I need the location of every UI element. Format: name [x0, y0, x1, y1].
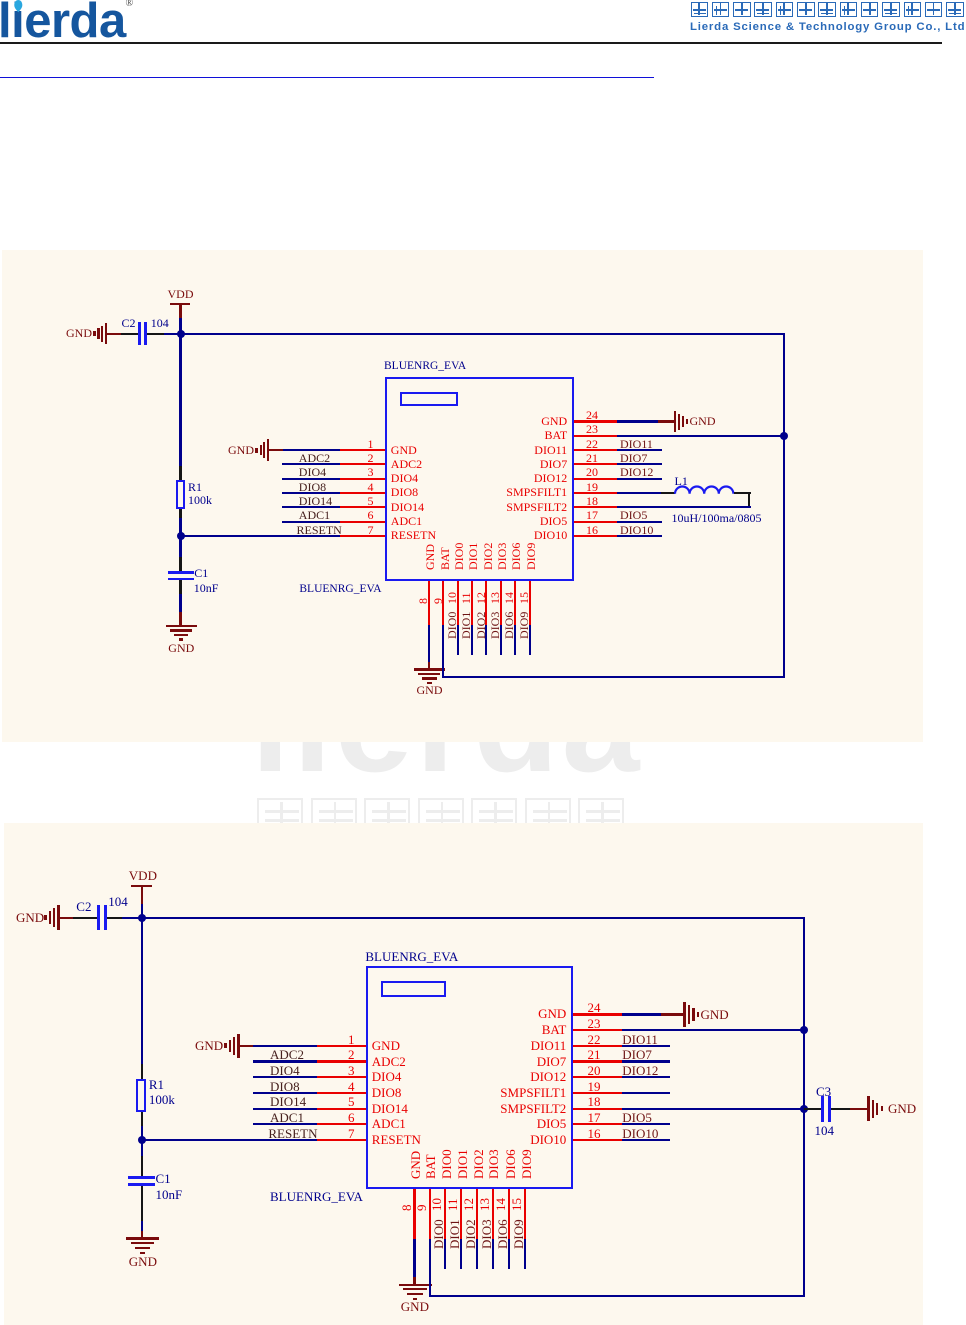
wire stub into ground (pin 8, sheet 2) [413, 1277, 415, 1284]
wire net DIO5 (sheet 2) [622, 1123, 670, 1125]
net label DIO1 [460, 611, 472, 638]
wire net DIO3 [500, 625, 502, 655]
pin number 4 (sheet 2) [321, 1080, 355, 1094]
inductor L1 [674, 484, 735, 495]
op-chip U1 BLUENRG_EVA body [385, 377, 573, 581]
net label DIO14 [299, 495, 332, 507]
pin 21 stub (sheet 2) [573, 1060, 622, 1062]
pin name ADC2 (pin 2, sheet 2) [372, 1055, 406, 1069]
wire bottom rail (sheet 2) [429, 1295, 806, 1297]
wire pin 24 to GND (sheet 2) [622, 1013, 662, 1015]
pin number 13 (sheet 2) [478, 1198, 491, 1211]
pin 23 stub [574, 435, 617, 437]
pin number 20 (sheet 2) [588, 1064, 601, 1078]
wire net DIO10 (sheet 2) [622, 1139, 670, 1141]
lead into L1 [661, 492, 676, 494]
pin name SMPSFILT2 (pin 18, sheet 2) [373, 1102, 567, 1116]
net label DIO11 [620, 438, 653, 450]
ground symbol (below chip, sheet 2) [399, 1284, 432, 1286]
lead out of C1 (sheet 2) [141, 1186, 143, 1221]
resistor R1 (sheet 2) [136, 1079, 146, 1113]
pin number 1 [340, 438, 374, 450]
net label DIO9 (sheet 2) [512, 1219, 525, 1249]
pin number 12 (sheet 2) [462, 1198, 475, 1211]
pin name DIO2 (pin 12, sheet 2) [472, 1149, 485, 1179]
pin name DIO14 (pin 5, sheet 2) [372, 1102, 408, 1116]
value 104 (C2) [151, 317, 169, 329]
ground symbol (C3) [867, 1096, 870, 1121]
wire C2 to VDD node (sheet 2) [122, 917, 142, 919]
pin name DIO1 (pin 11, sheet 2) [456, 1149, 469, 1179]
wire C1 to GND [179, 594, 181, 612]
wire bottom rail [442, 676, 785, 678]
wire net ADC1 [282, 521, 340, 523]
wire net DIO8 [282, 492, 340, 494]
junction node SMPSFILT2/rail (sheet 2) [800, 1105, 808, 1113]
wire net DIO9 (sheet 2) [524, 1239, 526, 1269]
pin number 15 [518, 592, 530, 604]
pin 11 stub [471, 581, 473, 625]
pin 21 stub [574, 463, 617, 465]
pin 6 stub [340, 521, 385, 523]
pin name GND (pin 8) [424, 544, 436, 570]
pin number 10 [446, 592, 458, 604]
capacitor C2 (sheet 2) [97, 905, 100, 931]
pin name DIO5 (pin 17, sheet 2) [373, 1117, 567, 1131]
pin 18 stub [574, 506, 617, 508]
pin name DIO6 (pin 14) [510, 542, 522, 569]
power VDD stem (sheet 2) [141, 887, 143, 904]
value 100k (R1, sheet 2) [149, 1093, 175, 1107]
pin 2 stub [340, 463, 385, 465]
wire net DIO2 [485, 625, 487, 655]
pin number 21 [586, 452, 598, 464]
pin name GND (pin 1, sheet 2) [372, 1039, 400, 1053]
lead out of C2 (sheet 2) [107, 917, 122, 919]
pin number 23 [586, 423, 598, 435]
net label ADC1 (sheet 2) [270, 1111, 304, 1125]
pin 17 stub (sheet 2) [573, 1123, 622, 1125]
watermark CJK block 1 [257, 798, 303, 838]
pin number 12 [475, 592, 487, 604]
ground GND label (below C1) [168, 642, 194, 654]
pin 1 stub [340, 449, 385, 451]
pin 18 stub (sheet 2) [573, 1108, 622, 1110]
net label DIO9 [518, 611, 530, 638]
lead out of R1 (sheet 2) [141, 1112, 143, 1126]
wire SMPSFILT2 to rail (sheet 2) [622, 1108, 805, 1110]
watermark strip [0, 742, 966, 823]
pin number 7 (sheet 2) [321, 1127, 355, 1141]
pin name DIO6 (pin 14, sheet 2) [504, 1149, 517, 1179]
wire BAT pin 9 to bottom rail [442, 625, 444, 679]
pin 15 stub [529, 581, 531, 625]
chip designator BLUENRG_EVA [299, 584, 381, 596]
pin name BAT (pin 23, sheet 2) [373, 1023, 567, 1037]
pin name SMPSFILT1 (pin 19, sheet 2) [373, 1086, 567, 1100]
pin 12 stub [485, 581, 487, 625]
wire net ADC2 [282, 463, 340, 465]
wire net DIO7 (sheet 2) [622, 1060, 670, 1062]
pin number 11 (sheet 2) [446, 1198, 459, 1211]
net label DIO8 [299, 481, 326, 493]
pin name ADC2 (pin 2) [391, 458, 422, 470]
pin 7 stub [340, 535, 385, 537]
net label DIO3 [489, 611, 501, 638]
pin name DIO8 (pin 4, sheet 2) [372, 1086, 402, 1100]
value 104 (C3) [815, 1124, 835, 1138]
ground GND label (pin 24) [690, 415, 716, 427]
net label DIO10 [620, 524, 653, 536]
pin 8 stub (sheet 2) [413, 1189, 415, 1239]
wire RESETN from R1 node [181, 535, 341, 537]
pin number 5 [340, 495, 374, 507]
ground symbol (pin 24, sheet 2) [683, 1002, 686, 1027]
pin name DIO10 (pin 16) [374, 529, 568, 541]
pin name DIO9 (pin 15) [525, 542, 537, 569]
pin number 2 (sheet 2) [321, 1048, 355, 1062]
wire GND to pin 1 [283, 449, 340, 451]
net label RESETN [297, 524, 342, 536]
power VDD stem [179, 305, 181, 318]
pin name GND (pin 24, sheet 2) [373, 1007, 567, 1021]
label C2 (sheet 2) [76, 900, 91, 914]
pin 12 stub (sheet 2) [476, 1189, 478, 1239]
ground symbol (C2, sheet 2) [57, 905, 60, 930]
wire pin 24 to GND [617, 420, 658, 422]
wire VDD node down to R1 [179, 334, 181, 466]
company name Chinese (blocks) [691, 2, 709, 18]
pin name DIO3 (pin 13, sheet 2) [487, 1149, 500, 1179]
wire net DIO14 [282, 506, 340, 508]
pin name BAT (pin 23) [374, 429, 568, 441]
junction node RESETN/R1/C1 (sheet 2) [138, 1136, 146, 1144]
pin 16 stub [574, 535, 617, 537]
pin number 10 (sheet 2) [430, 1198, 443, 1211]
net label ADC1 [299, 509, 330, 521]
label L1 [675, 475, 688, 487]
wire GND to pin 1 (sheet 2) [253, 1045, 317, 1047]
pin 24 stub (sheet 2) [573, 1013, 622, 1015]
pin 19 stub (sheet 2) [573, 1092, 622, 1094]
wire BAT to rail (sheet 2) [622, 1029, 806, 1031]
header black rule [0, 42, 942, 44]
wire VDD node down to R1 (sheet 2) [141, 918, 143, 1064]
net label DIO0 (sheet 2) [432, 1219, 445, 1249]
pin name SMPSFILT1 (pin 19) [374, 486, 568, 498]
wire node down to C1 (sheet 2) [141, 1140, 143, 1156]
wire GND to C2 (maroon) [107, 333, 121, 335]
pin name DIO5 (pin 17) [374, 515, 568, 527]
pin number 16 [586, 524, 598, 536]
pin number 19 [586, 481, 598, 493]
pin 22 stub (sheet 2) [573, 1045, 622, 1047]
wire GND to pin 1 (maroon) [269, 449, 283, 451]
pin number 9 (sheet 2) [415, 1204, 428, 1211]
capacitor C1 (sheet 2) [128, 1176, 155, 1179]
wire net DIO10 [617, 535, 662, 537]
wire lead out of C2 [147, 333, 164, 335]
watermark lierda (cropped) [251, 653, 643, 793]
net label DIO10 (sheet 2) [622, 1127, 658, 1141]
lead out of R1 [179, 509, 181, 518]
wire net DIO4 (sheet 2) [253, 1076, 317, 1078]
capacitor C2 [138, 322, 141, 345]
lead into C1 (sheet 2) [141, 1156, 143, 1176]
pin name GND (pin 8, sheet 2) [409, 1151, 422, 1179]
pin number 11 [460, 593, 472, 605]
value 10uH/100ma/0805 (L1) [672, 512, 762, 524]
label R1 [188, 481, 202, 493]
pin number 14 [503, 592, 515, 604]
ground symbol (C2) [105, 323, 108, 345]
net label DIO7 (sheet 2) [622, 1048, 652, 1062]
pin name DIO1 (pin 11) [467, 542, 479, 569]
chip inner rectangle [400, 392, 458, 406]
net label DIO0 [446, 611, 458, 638]
pin name DIO7 (pin 21) [374, 458, 568, 470]
net label ADC2 [299, 452, 330, 464]
chip inner rectangle (sheet 2) [381, 981, 446, 997]
wire RESETN from R1 node (sheet 2) [142, 1139, 317, 1141]
pin number 15 (sheet 2) [510, 1198, 523, 1211]
ground GND label (C2, sheet 2) [16, 911, 44, 925]
lead into R1 (sheet 2) [141, 1064, 143, 1079]
net label DIO7 [620, 452, 647, 464]
ground symbol (below C1) [166, 625, 197, 627]
pin number 7 [340, 524, 374, 536]
pin number 6 (sheet 2) [321, 1111, 355, 1125]
net label ADC2 (sheet 2) [270, 1048, 304, 1062]
wire SMPSFILT1 [617, 492, 661, 494]
pin name DIO9 (pin 15, sheet 2) [520, 1149, 533, 1179]
wire SMPSFILT2 [617, 506, 751, 508]
wire VDD top rail [181, 333, 785, 335]
junction node VDD/C2/R1 (sheet 2) [138, 914, 146, 922]
ground GND label (below chip) [417, 684, 443, 696]
pin number 20 [586, 466, 598, 478]
capacitor C1 [168, 571, 194, 574]
capacitor C3 [821, 1096, 824, 1122]
pin 11 stub (sheet 2) [460, 1189, 462, 1239]
pin name DIO12 (pin 20) [374, 472, 568, 484]
pin 3 stub (sheet 2) [317, 1076, 366, 1078]
chip designator BLUENRG_EVA (sheet 2) [270, 1190, 363, 1204]
wire net DIO11 [617, 449, 662, 451]
registered mark [126, 0, 134, 9]
wire net DIO2 (sheet 2) [476, 1239, 478, 1269]
wire net DIO8 (sheet 2) [253, 1092, 317, 1094]
ground GND label (below C1, sheet 2) [129, 1255, 157, 1269]
lead into C1 [179, 557, 181, 571]
wire pin 8 to GND (sheet 2) [413, 1239, 415, 1277]
ground GND label (pin 1, sheet 2) [195, 1039, 223, 1053]
pin number 8 (sheet 2) [400, 1204, 413, 1211]
wire BAT to rail [617, 435, 785, 437]
pin number 22 [586, 438, 598, 450]
net label DIO12 [620, 466, 653, 478]
pin 10 stub [457, 581, 459, 625]
junction node BAT/rail [780, 432, 788, 440]
pin 2 stub (sheet 2) [317, 1060, 366, 1062]
pin 15 stub (sheet 2) [524, 1189, 526, 1239]
net label DIO6 (sheet 2) [496, 1219, 509, 1249]
pin number 5 (sheet 2) [321, 1095, 355, 1109]
pin name BAT (pin 9) [439, 547, 451, 570]
watermark CJK block 6 [525, 798, 571, 838]
junction node VDD/C2/R1 [177, 330, 185, 338]
lead into C3 [804, 1108, 821, 1110]
net label DIO5 (sheet 2) [622, 1111, 652, 1125]
pin 3 stub [340, 478, 385, 480]
lierda logo text [0, 0, 126, 46]
pin number 2 [340, 452, 374, 464]
pin number 22 (sheet 2) [588, 1033, 601, 1047]
pin name SMPSFILT2 (pin 18) [374, 501, 568, 513]
pin number 9 [432, 598, 444, 604]
pin name DIO2 (pin 12) [482, 542, 494, 569]
pin name DIO0 (pin 10) [453, 542, 465, 569]
wire pin 8 to GND [428, 625, 430, 662]
value 100k (R1) [188, 494, 212, 506]
wire C2 to VDD node [164, 333, 181, 335]
wire stub into ground [179, 612, 181, 626]
pin number 24 (sheet 2) [588, 1001, 601, 1015]
wire net DIO6 (sheet 2) [508, 1239, 510, 1269]
pin number 6 [340, 509, 374, 521]
wire R1 to RESETN node [179, 518, 181, 536]
net label DIO2 [475, 611, 487, 638]
pin name DIO14 (pin 5) [391, 501, 424, 513]
pin 9 stub (sheet 2) [429, 1189, 431, 1239]
pin name DIO11 (pin 22) [374, 444, 568, 456]
wire stub into ground (pin 24, sheet 2) [661, 1013, 683, 1015]
junction node BAT/rail (sheet 2) [800, 1026, 808, 1034]
pin 5 stub (sheet 2) [317, 1108, 366, 1110]
pin name DIO3 (pin 13) [496, 542, 508, 569]
wire VDD stem to rail [179, 318, 181, 334]
ground symbol (below chip) [414, 668, 445, 670]
wire net DIO14 (sheet 2) [253, 1108, 317, 1110]
wire net DIO1 [471, 625, 473, 655]
pin 13 stub (sheet 2) [492, 1189, 494, 1239]
pin name BAT (pin 9, sheet 2) [424, 1154, 437, 1179]
value 104 (C2, sheet 2) [108, 895, 128, 909]
lead into R1 [179, 466, 181, 480]
wire net DIO9 [529, 625, 531, 655]
label C1 [194, 567, 208, 579]
label C1 (sheet 2) [156, 1172, 171, 1186]
pin number 14 (sheet 2) [494, 1198, 507, 1211]
label C2 [122, 317, 136, 329]
pin number 16 (sheet 2) [588, 1127, 601, 1141]
net label DIO1 (sheet 2) [448, 1219, 461, 1249]
net label DIO6 [503, 611, 515, 638]
net label DIO8 (sheet 2) [270, 1080, 300, 1094]
pin 23 stub (sheet 2) [573, 1029, 622, 1031]
wire R1 to RESETN node (sheet 2) [141, 1126, 143, 1140]
pin number 3 (sheet 2) [321, 1064, 355, 1078]
pin 6 stub (sheet 2) [317, 1123, 366, 1125]
wire net DIO7 [617, 463, 662, 465]
pin 14 stub (sheet 2) [508, 1189, 510, 1239]
pin 24 stub [574, 420, 617, 422]
pin number 21 (sheet 2) [588, 1048, 601, 1062]
pin name DIO12 (pin 20, sheet 2) [373, 1070, 567, 1084]
label R1 (sheet 2) [149, 1078, 164, 1092]
wire net DIO12 [617, 478, 662, 480]
pin 9 stub [442, 581, 444, 625]
pin name DIO11 (pin 22, sheet 2) [373, 1039, 567, 1053]
pin 16 stub (sheet 2) [573, 1139, 622, 1141]
pin 17 stub [574, 521, 617, 523]
pin name ADC1 (pin 6) [391, 515, 422, 527]
chip title BLUENRG_EVA [384, 361, 466, 373]
ground GND label (C3) [888, 1102, 916, 1116]
wire L1 down to SMPSFILT2 [748, 493, 750, 507]
pin 5 stub [340, 506, 385, 508]
watermark CJK block 5 [471, 798, 517, 838]
wire stub into ground (pin 8) [428, 662, 430, 669]
lead out of C3 [831, 1108, 850, 1110]
wire net DIO0 [457, 625, 459, 655]
junction node RESETN/R1/C1 [177, 532, 185, 540]
pin name DIO7 (pin 21, sheet 2) [373, 1055, 567, 1069]
wire GND to C2 (sheet 2) [60, 917, 73, 919]
pin 22 stub [574, 449, 617, 451]
pin name GND (pin 24) [374, 415, 568, 427]
net label DIO5 [620, 509, 647, 521]
power VDD net label (sheet 2) [129, 869, 157, 883]
ground GND label (pin 1) [228, 444, 254, 456]
ground symbol (below C1, sheet 2) [126, 1237, 159, 1239]
pin name GND (pin 1) [391, 444, 417, 456]
wire stub into ground (pin 24) [658, 420, 674, 422]
net label DIO4 [299, 466, 326, 478]
wire BAT pin 9 to bottom rail (sheet 2) [429, 1239, 431, 1297]
wire right vertical rail (sheet 2) [803, 918, 805, 1298]
net label DIO14 (sheet 2) [270, 1095, 306, 1109]
wire net ADC1 (sheet 2) [253, 1123, 317, 1125]
lead out of L1 [734, 492, 751, 494]
wire net DIO6 [514, 625, 516, 655]
pin number 3 [340, 466, 374, 478]
header blue rule [0, 77, 654, 78]
ground symbol (pin 24) [674, 411, 677, 433]
ground symbol (pin 1) [267, 439, 270, 461]
pin number 18 (sheet 2) [588, 1095, 601, 1109]
ground GND label (below chip, sheet 2) [401, 1300, 429, 1314]
label C3 [816, 1085, 831, 1099]
chip title BLUENRG_EVA (sheet 2) [365, 950, 458, 964]
pin number 23 (sheet 2) [588, 1017, 601, 1031]
wire C1 to GND (sheet 2) [141, 1221, 143, 1231]
ground symbol (pin 1, sheet 2) [237, 1034, 240, 1059]
pin name ADC1 (pin 6, sheet 2) [372, 1117, 406, 1131]
wire net DIO11 (sheet 2) [622, 1045, 670, 1047]
pin name DIO8 (pin 4) [391, 486, 418, 498]
wire stub into ground (C1, sheet 2) [141, 1231, 143, 1238]
pin number 4 [340, 481, 374, 493]
power VDD net label [168, 288, 194, 300]
pin 20 stub (sheet 2) [573, 1076, 622, 1078]
net label DIO11 (sheet 2) [622, 1033, 658, 1047]
pin 20 stub [574, 478, 617, 480]
ground GND label (pin 24, sheet 2) [701, 1008, 729, 1022]
wire net ADC2 (sheet 2) [253, 1060, 317, 1062]
pin name DIO4 (pin 3) [391, 472, 418, 484]
pin 1 stub (sheet 2) [317, 1045, 366, 1047]
